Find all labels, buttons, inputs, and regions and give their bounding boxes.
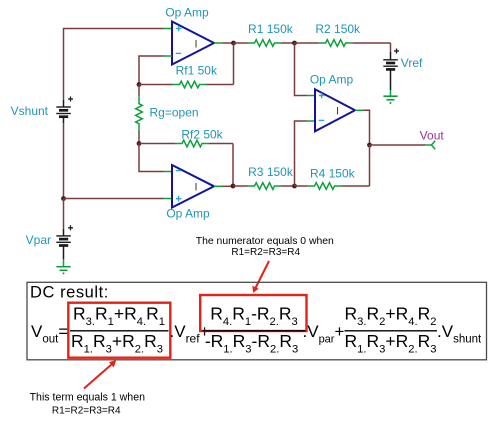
svg-text:R1 150k: R1 150k	[248, 22, 294, 36]
op-amp U2	[172, 165, 214, 208]
wire Vshunt- down to node	[63, 123, 65, 199]
wire node down to Vpar	[63, 199, 65, 230]
svg-text:Op Amp: Op Amp	[310, 73, 354, 87]
svg-text:Vshunt: Vshunt	[11, 104, 49, 118]
wire to Vout terminal	[370, 141, 436, 150]
junction Vout / R4 / U3 out	[367, 143, 372, 148]
ground (below Vref)	[383, 90, 397, 104]
battery Vshunt	[56, 97, 73, 124]
svg-text:I: I	[336, 106, 339, 118]
svg-text:Rf1 50k: Rf1 50k	[176, 64, 218, 78]
resistor R1 150k	[234, 40, 295, 47]
svg-text:I: I	[194, 38, 197, 50]
svg-text:R4 150k: R4 150k	[310, 167, 356, 181]
svg-text:This term equals 1 when: This term equals 1 when	[30, 391, 146, 403]
svg-text:R3 150k: R3 150k	[248, 165, 294, 179]
svg-text:Op Amp: Op Amp	[165, 6, 209, 20]
junction U1 out / R1 / Rf1	[231, 41, 236, 46]
DC result box	[27, 282, 487, 360]
junction R3 / R4 / U3-	[292, 184, 297, 189]
wire Rf2 node to U2 - input	[139, 144, 172, 172]
svg-text:Vref: Vref	[401, 56, 423, 70]
svg-text:DC result:: DC result:	[30, 284, 109, 302]
wire U2 output pin	[214, 185, 233, 187]
svg-text:R1=R2=R3=R4: R1=R2=R3=R4	[52, 406, 121, 417]
resistor R3 150k	[233, 183, 295, 190]
junction Rg / Rf2 / U2-	[137, 141, 142, 146]
wire junction down to R4	[369, 145, 371, 186]
svg-text:Rf2 50k: Rf2 50k	[181, 128, 223, 142]
resistor R2 150k	[295, 40, 391, 47]
junction U2 out / Rf2 / R3	[231, 184, 236, 189]
svg-text:R1=R2=R3=R4: R1=R2=R3=R4	[231, 247, 300, 258]
resistor Rg=open (vertical)	[136, 85, 143, 144]
battery Vpar	[56, 225, 73, 259]
resistor R4 150k	[295, 183, 370, 190]
fraction 2	[203, 304, 306, 356]
svg-text:I: I	[194, 182, 197, 194]
wire U3 output pin	[355, 110, 370, 145]
wire U3 - input to R3/R4 node	[295, 121, 316, 186]
resistor Rf2 50k	[139, 140, 233, 147]
junction node Vpar/Vshunt/U2+	[61, 196, 66, 201]
svg-text:Vout: Vout	[420, 128, 445, 142]
wire R2 to Vref	[390, 43, 392, 52]
op-amp U3	[315, 89, 355, 131]
svg-text:R2 150k: R2 150k	[315, 22, 361, 36]
wire net Vshunt+ to U1 + input	[64, 29, 173, 101]
red highlight box 1 (first fraction)	[68, 303, 170, 358]
red highlight box 2 (second numerator)	[200, 295, 306, 331]
junction R1 / R2 / U3+	[292, 41, 297, 46]
ground (below Vpar)	[56, 259, 70, 274]
svg-text:Vpar: Vpar	[26, 233, 51, 247]
wire R1/R2 node to U3 + input	[295, 43, 316, 96]
battery Vref	[383, 49, 399, 91]
resistor Rf1 50k	[139, 81, 234, 88]
op-amp U1	[172, 22, 214, 65]
junction Rf1 / Rg / U1-	[137, 82, 142, 87]
wire Rf1 to U1 output junction	[233, 43, 235, 85]
wire node to U2 + input	[64, 198, 173, 200]
svg-text:The numerator equals 0 when: The numerator equals 0 when	[196, 236, 334, 247]
arrow to red box 2	[252, 261, 269, 293]
svg-text:Rg=open: Rg=open	[150, 106, 199, 120]
wire Rf2 down to U2 output junction	[232, 144, 234, 187]
fraction 1	[70, 304, 169, 356]
wire U1 output pin	[214, 42, 234, 44]
arrow to red box 1	[84, 360, 116, 388]
svg-text:Op Amp: Op Amp	[166, 207, 210, 221]
fraction 3	[345, 304, 438, 356]
wire U1 - input from feedback column	[139, 56, 172, 85]
